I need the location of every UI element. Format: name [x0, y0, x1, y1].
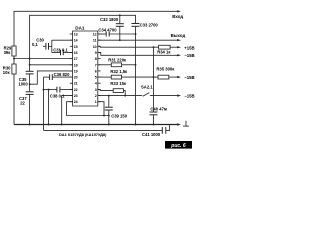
svg-text:−15В: −15В [184, 53, 194, 58]
svg-text:1000: 1000 [18, 82, 28, 87]
svg-text:17: 17 [74, 57, 78, 61]
svg-text:+15В: +15В [184, 45, 194, 50]
svg-text:5: 5 [95, 76, 97, 80]
svg-text:0,1: 0,1 [32, 42, 38, 47]
svg-text:39к: 39к [4, 50, 12, 55]
svg-text:11: 11 [93, 39, 97, 43]
svg-text:C40 47м: C40 47м [150, 107, 167, 112]
svg-text:10к: 10к [3, 70, 11, 75]
svg-text:2: 2 [95, 94, 97, 98]
svg-text:19: 19 [74, 69, 78, 73]
svg-text:9: 9 [95, 51, 97, 55]
svg-text:Вход: Вход [172, 14, 183, 19]
svg-text:22: 22 [74, 88, 78, 92]
svg-text:4: 4 [95, 82, 97, 86]
svg-text:8: 8 [95, 57, 97, 61]
svg-text:12: 12 [93, 33, 97, 37]
svg-text:R33 15к: R33 15к [110, 81, 127, 86]
svg-text:16: 16 [74, 51, 78, 55]
svg-text:DA1: DA1 [75, 26, 85, 31]
svg-text:1: 1 [95, 100, 97, 104]
svg-text:6: 6 [95, 69, 97, 73]
svg-text:DA1 К157УД8 (КА157УД8): DA1 К157УД8 (КА157УД8) [59, 132, 107, 137]
svg-text:C33 2700: C33 2700 [140, 22, 159, 27]
svg-text:R35 300к: R35 300к [156, 67, 175, 72]
svg-text:R34 1к: R34 1к [157, 49, 171, 54]
svg-text:C38 0,1: C38 0,1 [50, 94, 65, 99]
svg-text:Выход: Выход [171, 33, 186, 38]
svg-text:10: 10 [93, 45, 97, 49]
svg-text:−15В: −15В [184, 75, 194, 80]
svg-text:R32 1,5к: R32 1,5к [110, 69, 128, 74]
svg-text:24: 24 [74, 100, 78, 104]
svg-text:23: 23 [74, 94, 78, 98]
svg-text:18: 18 [74, 63, 78, 67]
svg-text:20: 20 [74, 76, 78, 80]
svg-text:C39 150: C39 150 [111, 114, 128, 119]
svg-text:R31 220к: R31 220к [108, 57, 127, 62]
svg-text:22: 22 [20, 101, 25, 106]
svg-text:C34 4700: C34 4700 [98, 27, 117, 32]
svg-text:21: 21 [74, 82, 78, 86]
svg-text:SA2.1: SA2.1 [141, 85, 153, 90]
svg-text:C41 1000: C41 1000 [142, 132, 161, 137]
svg-text:C36 820: C36 820 [54, 72, 71, 77]
svg-text:15: 15 [74, 45, 78, 49]
svg-text:−15В: −15В [184, 94, 194, 99]
svg-text:14: 14 [74, 39, 78, 43]
svg-text:C32 1800: C32 1800 [100, 17, 119, 22]
svg-text:рис. 6: рис. 6 [170, 143, 186, 149]
svg-text:13: 13 [74, 33, 78, 37]
svg-text:7: 7 [95, 63, 97, 67]
svg-text:С31 0,1: С31 0,1 [53, 48, 68, 53]
svg-text:3: 3 [95, 88, 97, 92]
